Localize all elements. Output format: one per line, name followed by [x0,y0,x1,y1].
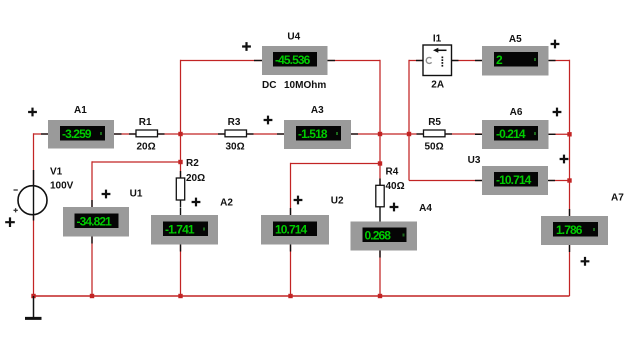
svg-text:A7: A7 [611,193,624,204]
wire: I1 left branch horizontal [409,60,423,62]
wire: I1 left column x=409 [408,60,410,181]
svg-text:U3: U3 [468,155,481,166]
wire: U2 top drop [290,163,292,215]
U2 plus [294,196,303,205]
svg-text:-10.714: -10.714 [496,173,532,187]
svg-text:U4: U4 [287,32,300,43]
A3 plus [264,116,273,125]
svg-text:R1: R1 [139,117,152,128]
ammeter A5 [475,46,556,76]
A7 plus [581,257,590,266]
voltage source V1 100V [14,170,48,221]
wire: V1 column vertical [33,133,35,296]
svg-text:-1.741: -1.741 [165,222,195,236]
wire: right column x=569.5 [569,60,571,216]
V1 polarity plus [5,217,15,227]
svg-text:A3: A3 [311,105,324,116]
ammeter A7 [541,209,608,252]
svg-text:40Ω: 40Ω [386,181,405,192]
wire: U3 row from x=409 to U3 [409,180,482,182]
wire: bottom ground rail [34,295,570,297]
wire: A2 bottom drop [180,245,182,297]
svg-text:A4: A4 [419,203,432,214]
junction at rail A4 (380,296) [378,294,382,298]
junction at rail V1 (33.5,296) [31,294,35,298]
ammeter A1 [41,120,122,149]
ammeter A6 [475,120,556,149]
wire: A4 bottom drop [379,251,381,297]
junction at rail U1 (92,296) [90,294,94,298]
U3 plus [560,155,569,164]
svg-text:R4: R4 [386,167,399,178]
ground [25,296,42,318]
A6 plus [553,108,562,117]
svg-text:1.786: 1.786 [556,223,583,237]
wire: U4 row right segment to x=380 [328,60,381,62]
svg-text:A6: A6 [510,107,523,118]
wire: U2 bottom drop [290,245,292,297]
junction at U3 right column (569.5,180.5) [567,178,571,182]
svg-text:50Ω: 50Ω [425,142,444,153]
resistor R4 (vertical) [376,179,384,215]
svg-text:V1: V1 [50,167,63,178]
junction at A6 right column (569.5,134.3) [567,132,571,136]
junction at rail A2 (180.5,296) [178,294,182,298]
resistor R3 [218,130,254,137]
wire: A7 bottom drop [569,245,571,296]
voltmeter U2 [261,208,329,252]
svg-text:-1.518: -1.518 [298,127,328,141]
svg-text:2A: 2A [431,80,444,91]
voltmeter U3 [475,166,555,195]
wire: U2 top link y=163.5 [291,163,381,165]
wire: U1 top link y=162 [92,161,181,163]
resistor R1 [129,130,165,137]
wire: x=380 column from U4 row down to R4 [379,60,381,186]
resistor R2 (vertical) [176,171,184,208]
A4 plus [390,203,399,212]
ammeter A2 [151,208,218,252]
svg-text:R3: R3 [228,117,241,128]
svg-text:-0.214: -0.214 [496,127,526,141]
junction at A3/R5 node (380,134) [378,132,382,136]
A2 plus [192,198,201,207]
svg-text:U1: U1 [130,189,143,200]
svg-text:A5: A5 [509,34,522,45]
A1 plus [28,108,37,117]
svg-text:0.268: 0.268 [365,228,392,242]
svg-text:-34.821: -34.821 [77,214,113,228]
svg-text:-45.536: -45.536 [275,53,311,67]
junction at rail U2 (290.5,296) [288,294,292,298]
svg-text:10MOhm: 10MOhm [284,80,326,91]
A5 plus [551,40,560,49]
U4 plus [242,42,251,51]
svg-text:20Ω: 20Ω [186,173,205,184]
wire: main row y=134 from V1 column to A6 [34,133,483,135]
svg-text:100V: 100V [50,181,74,192]
voltmeter U4 [254,46,335,75]
svg-text:U2: U2 [331,196,344,207]
svg-text:R2: R2 [186,158,199,169]
svg-text:A1: A1 [74,105,87,116]
svg-text:DC: DC [262,80,276,91]
voltmeter U1 [63,200,129,244]
wire: I1 right to A5 [452,60,483,62]
wire: U3 right stub to column [549,180,570,182]
svg-text:10.714: 10.714 [275,222,308,236]
U1 plus [102,190,111,199]
wire: A5 right to right column [549,60,570,62]
svg-text:30Ω: 30Ω [226,142,245,153]
svg-text:I1: I1 [433,34,442,45]
wire: U1 bottom drop [91,237,93,297]
current source I1 [416,45,459,76]
svg-text:20Ω: 20Ω [137,142,156,153]
wire: U4 left riser x=180.5 [180,60,182,178]
resistor R5 [417,130,453,137]
wire: U1 top drop [91,161,93,207]
svg-text:A2: A2 [220,198,233,209]
ammeter A3 [277,120,358,149]
ammeter A4 [351,215,418,258]
svg-text:R5: R5 [428,117,441,128]
wire: U4 row left segment [181,60,263,62]
junction at R1/R3 node (180.5,134) [178,132,182,136]
junction at R4 top node (380,163.5) [378,161,382,165]
junction at I1 column on main row (409,134) [407,132,411,136]
svg-text:-3.259: -3.259 [62,127,92,141]
junction at R2 top node (180.5,162) [178,160,182,164]
wire: A6 right stub to column [549,133,570,135]
